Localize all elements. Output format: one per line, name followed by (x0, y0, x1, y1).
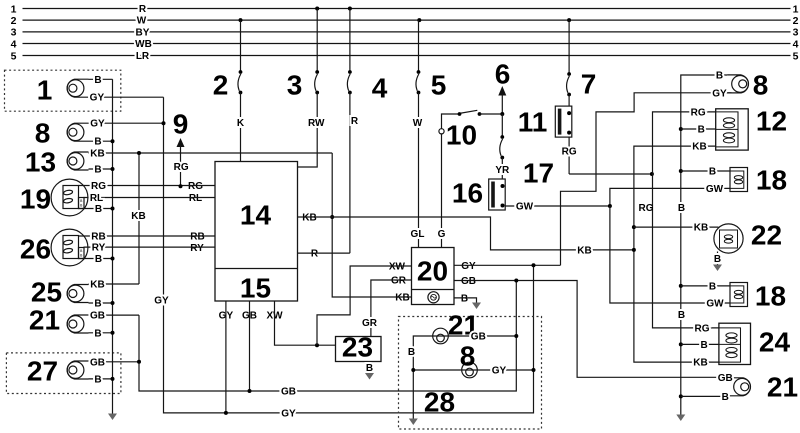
relay coil 12 (716, 106, 787, 151)
node bus wire color labels (135, 4, 152, 62)
svg-text:R: R (311, 249, 319, 260)
svg-text:GB: GB (461, 276, 476, 287)
svg-text:GY: GY (492, 366, 507, 377)
wire GR from box 20 to box 23 (362, 280, 412, 337)
wire B of box 28 lamps to ground (408, 336, 460, 425)
wire GY riser to lamp 8 right (561, 93, 732, 265)
svg-text:W: W (137, 16, 147, 27)
svg-text:3: 3 (11, 27, 17, 39)
svg-text:R: R (351, 116, 359, 127)
svg-text:B: B (678, 310, 685, 321)
svg-text:K: K (237, 118, 245, 129)
svg-text:KB: KB (131, 211, 145, 222)
svg-text:GY: GY (90, 93, 105, 104)
svg-text:5: 5 (793, 50, 799, 62)
wire GB from box 20 to lamp 21 bottom right (454, 279, 734, 378)
svg-text:21: 21 (767, 372, 798, 403)
svg-text:GY: GY (712, 88, 727, 99)
svg-text:13: 13 (25, 147, 56, 178)
wire B bus right: dots and ground (676, 127, 685, 421)
switch 7 (to fuse 11) (567, 20, 597, 106)
svg-text:KB: KB (90, 149, 104, 160)
wire GW from fuse 16 to node (505, 202, 610, 213)
svg-text:19: 19 (20, 184, 51, 215)
svg-text:5: 5 (11, 50, 17, 62)
svg-text:GW: GW (516, 202, 534, 213)
svg-text:GB: GB (90, 357, 105, 368)
wire bus 3 BY (23, 31, 791, 33)
svg-text:GY: GY (461, 261, 476, 272)
wire GW node to comp 18 upper (608, 184, 730, 208)
svg-text:20: 20 (417, 256, 448, 287)
svg-text:B: B (94, 328, 101, 339)
svg-text:WB: WB (135, 39, 152, 50)
lamp 21 left (29, 305, 139, 340)
lamp 25 (31, 277, 139, 310)
wire KB from box 14 right to far right (298, 217, 634, 256)
wire bus 5 LR (23, 55, 791, 57)
svg-text:RG: RG (691, 107, 706, 118)
lamp 8 right (681, 70, 768, 415)
svg-text:B: B (95, 204, 102, 215)
svg-text:GY: GY (90, 119, 105, 130)
wire GY drop from box 14 (224, 301, 228, 415)
svg-text:GL: GL (411, 229, 425, 240)
wire B of box 23 to ground (365, 362, 374, 380)
svg-text:RL: RL (90, 193, 103, 204)
svg-text:2: 2 (793, 15, 799, 27)
wire GW node down to comp 18 lower (610, 206, 730, 310)
svg-text:KB: KB (692, 142, 706, 153)
svg-text:GY: GY (281, 409, 296, 420)
svg-text:RG: RG (695, 323, 710, 334)
svg-text:9: 9 (173, 109, 189, 140)
svg-text:R: R (139, 4, 147, 15)
fuse 11 (518, 106, 577, 174)
wire GY vertical (1/8 to bottom run) (154, 97, 533, 419)
svg-text:16: 16 (452, 178, 483, 209)
arrow 6 (up) (495, 59, 511, 115)
box 20 pin labels (389, 261, 476, 305)
arrow 9 (up) with RG tap (173, 109, 189, 189)
wire B to comp 24 (681, 340, 719, 351)
svg-text:BY: BY (136, 27, 150, 38)
switch 3 (RW) (287, 9, 325, 168)
svg-text:18: 18 (755, 281, 786, 312)
svg-text:GY: GY (154, 295, 169, 306)
wire GY from box 20 to right riser (454, 263, 561, 267)
svg-text:B: B (95, 254, 102, 265)
svg-text:RG: RG (91, 181, 106, 192)
lamp 27 (27, 356, 139, 387)
node bus numbers left (11, 3, 17, 62)
svg-text:21: 21 (29, 305, 60, 336)
svg-text:11: 11 (518, 107, 548, 138)
svg-text:RG: RG (562, 147, 577, 158)
svg-text:27: 27 (27, 356, 58, 387)
svg-text:1: 1 (793, 3, 799, 15)
svg-text:B: B (94, 75, 101, 86)
svg-text:B: B (366, 363, 373, 374)
svg-text:7: 7 (581, 69, 597, 100)
fuse 16 (452, 178, 505, 211)
svg-text:15: 15 (240, 273, 271, 304)
svg-text:GW: GW (706, 184, 724, 195)
svg-text:KB: KB (395, 293, 409, 304)
node junction dots on buses (239, 7, 572, 23)
switch 5 (W / GL line to box 20) (411, 20, 447, 247)
tail lamp 26 (20, 229, 215, 266)
svg-text:RG: RG (639, 203, 654, 214)
svg-text:XW: XW (389, 262, 406, 273)
svg-text:B: B (716, 71, 723, 82)
svg-text:3: 3 (793, 27, 799, 39)
wire KB: over box 14, down right side, to box 20 and right run (330, 153, 411, 297)
connector box 14 (215, 162, 298, 304)
dashed box 28 (399, 317, 542, 430)
svg-text:1: 1 (11, 3, 17, 15)
svg-text:24: 24 (759, 327, 791, 358)
svg-text:28: 28 (424, 387, 455, 418)
svg-text:25: 25 (31, 277, 62, 308)
svg-text:B: B (408, 347, 415, 358)
svg-text:GW: GW (706, 299, 724, 310)
lamp 8 (35, 118, 164, 149)
svg-text:B: B (94, 299, 101, 310)
svg-text:GR: GR (362, 318, 378, 329)
switch 10 (horizontal) (439, 110, 504, 150)
svg-text:10: 10 (446, 120, 477, 151)
switch above fuse 16 (495, 114, 510, 179)
wire KB comp 12 to right KB riser (632, 142, 719, 369)
svg-text:GB: GB (90, 311, 105, 322)
svg-text:RY: RY (190, 243, 204, 254)
svg-text:2: 2 (213, 70, 229, 101)
headlamp 19 (20, 179, 215, 216)
wire XW from box 14 to box 23 (275, 301, 336, 347)
svg-text:B: B (700, 340, 707, 351)
svg-text:RB: RB (91, 232, 105, 243)
svg-text:1: 1 (37, 75, 53, 106)
wire XW from box 20 to junction (317, 266, 412, 345)
svg-text:B: B (709, 167, 716, 178)
svg-text:B: B (698, 125, 705, 136)
svg-text:RG: RG (188, 181, 203, 192)
wire bus 1 R (23, 8, 791, 10)
svg-text:B: B (714, 254, 721, 265)
lamp 21 in box 28 (431, 310, 519, 344)
wire R from box 14 to switch 4 (298, 252, 350, 254)
svg-text:26: 26 (20, 234, 51, 265)
svg-text:GR: GR (391, 276, 407, 287)
svg-text:22: 22 (751, 220, 782, 251)
svg-text:KB: KB (694, 223, 708, 234)
svg-text:RL: RL (189, 193, 202, 204)
wire G: switch 10 terminal down to box 20 (438, 134, 446, 248)
svg-text:G: G (438, 229, 446, 240)
svg-text:23: 23 (342, 332, 373, 363)
svg-text:2: 2 (11, 15, 17, 27)
svg-text:8: 8 (35, 118, 51, 149)
svg-text:B: B (461, 293, 468, 304)
dashed box around lamp 1 (5, 70, 121, 111)
relay 18 lower (681, 281, 786, 312)
wire B to comp 12 (681, 125, 716, 136)
svg-text:RB: RB (190, 232, 204, 243)
wire B of box 20 to ground (454, 298, 481, 309)
svg-text:KB: KB (90, 280, 104, 291)
lamp 1 (37, 75, 164, 106)
wire bus 2 W (23, 19, 791, 21)
svg-text:GB: GB (281, 387, 296, 398)
wire RG from fuse 11 to right riser (569, 172, 654, 176)
svg-text:17: 17 (523, 158, 554, 189)
horn 22 (634, 220, 782, 272)
box 14 pin labels (188, 181, 319, 322)
wire RG to comp 12 (639, 107, 719, 328)
wire bus 4 WB (23, 43, 791, 45)
dashed box around lamp 27 (6, 353, 121, 394)
wire GB drop from box 14 (248, 301, 252, 393)
connector box 20 with pump symbol (412, 248, 455, 305)
svg-text:KB: KB (693, 358, 707, 369)
svg-text:3: 3 (287, 70, 303, 101)
lamp 13 (25, 147, 332, 178)
relay coil 24 (719, 323, 791, 364)
svg-text:B: B (94, 137, 101, 148)
wire KB vertical (13 to 25) (131, 151, 145, 284)
node bus numbers right (793, 3, 799, 62)
svg-text:18: 18 (756, 165, 787, 196)
svg-text:14: 14 (240, 200, 272, 231)
svg-text:KB: KB (577, 245, 591, 256)
svg-text:B: B (94, 374, 101, 385)
svg-text:B: B (94, 165, 101, 176)
svg-text:4: 4 (372, 73, 388, 104)
svg-text:B: B (678, 203, 685, 214)
svg-text:5: 5 (431, 70, 447, 101)
svg-text:12: 12 (756, 106, 787, 137)
wire GB vertical (21/27 to bottom run) (137, 281, 516, 398)
lamp 8 in box 28 (460, 341, 536, 378)
flasher box 23 (336, 332, 382, 363)
switch 4 (R) (347, 9, 387, 254)
svg-text:GB: GB (718, 373, 733, 384)
lamp 21 bottom right (681, 372, 798, 403)
svg-text:8: 8 (753, 70, 769, 101)
relay 18 upper (681, 165, 787, 196)
svg-text:B: B (722, 392, 729, 403)
svg-text:RG: RG (174, 162, 189, 173)
svg-text:8: 8 (460, 341, 476, 372)
svg-text:6: 6 (495, 59, 511, 90)
svg-text:RW: RW (308, 118, 325, 129)
svg-text:LR: LR (136, 51, 150, 62)
svg-text:W: W (413, 118, 423, 129)
svg-text:YR: YR (495, 165, 510, 176)
svg-text:4: 4 (11, 38, 17, 50)
wire B bus left (108, 79, 117, 420)
svg-text:4: 4 (793, 38, 799, 50)
svg-text:B: B (709, 281, 716, 292)
svg-text:KB: KB (302, 213, 316, 224)
svg-text:RY: RY (92, 243, 106, 254)
switch 2 (K) (213, 20, 245, 161)
